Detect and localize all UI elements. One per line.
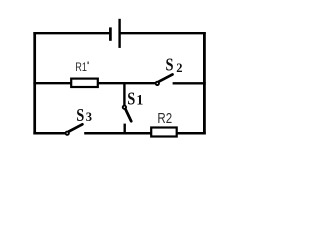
wire left edge (top-left corner down to bottom-left corner) xyxy=(33,32,36,135)
svg-text:2: 2 xyxy=(176,61,182,75)
wire bottom-right segment (resistor R2 to bottom-right corner) xyxy=(177,132,206,135)
svg-text:3: 3 xyxy=(86,110,92,124)
wire middle branch right (switch S2 to right edge) xyxy=(173,82,206,84)
resistor R2 xyxy=(151,128,177,137)
wire bottom middle segment (switch S3 to resistor R2) xyxy=(84,132,151,135)
label S1 xyxy=(127,89,143,109)
switch S2 (pivot circle and open blade) xyxy=(156,74,173,85)
wire S1 branch upper (middle wire down to switch S1) xyxy=(123,82,125,105)
battery B1 minus plate (short bar) xyxy=(109,27,112,40)
wire top-right segment (battery plus plate to top-right corner) xyxy=(120,32,206,34)
wire S1 branch lower stub (blade gap down to bottom wire) xyxy=(123,124,125,135)
wire right edge (top-right corner down to bottom-right corner) xyxy=(203,32,206,135)
switch S3 (pivot circle and open blade) xyxy=(66,124,83,135)
wire top-left segment (top-left corner to battery minus plate) xyxy=(33,32,109,34)
wire bottom-left segment (bottom-left corner to switch S3) xyxy=(33,132,65,135)
label S3 xyxy=(76,105,92,125)
label S2 xyxy=(166,55,183,75)
svg-text:S: S xyxy=(166,55,174,75)
wire middle branch left (left edge to resistor R1) xyxy=(33,82,71,84)
svg-text:1: 1 xyxy=(136,93,143,109)
wire middle branch center (resistor R1 to switch S2) xyxy=(98,82,155,84)
svg-text:R1: R1 xyxy=(75,61,87,75)
battery B1 plus plate (long bar) xyxy=(118,19,120,48)
svg-text:R2: R2 xyxy=(157,110,172,127)
svg-text:S: S xyxy=(76,105,84,125)
svg-text:S: S xyxy=(127,89,135,109)
label R1 xyxy=(75,61,87,75)
resistor R1 xyxy=(71,79,98,87)
label R2 xyxy=(157,110,172,127)
switch S1 (pivot circle and open blade) xyxy=(123,106,131,122)
